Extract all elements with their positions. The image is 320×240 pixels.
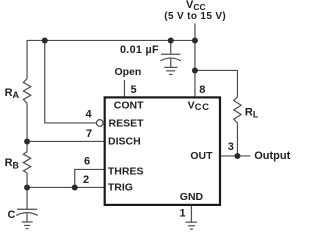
svg-text:CONT: CONT xyxy=(114,99,144,111)
ground (bypass cap) xyxy=(164,66,177,68)
capacitor C: top plate xyxy=(17,208,37,210)
wire: RB top lead xyxy=(26,141,28,151)
svg-text:0.01 µF: 0.01 µF xyxy=(120,44,159,56)
node: rail / RESET riser junction xyxy=(42,37,48,43)
wire: DISCH xyxy=(27,140,105,142)
resistor RA xyxy=(23,79,30,104)
svg-text:RESET: RESET xyxy=(109,118,145,130)
wire: RL branch from VCC stem xyxy=(195,70,238,97)
svg-text:Output: Output xyxy=(254,150,290,162)
svg-text:THRES: THRES xyxy=(108,165,144,177)
capacitor C: stem xyxy=(26,187,28,209)
wire: RESET riser xyxy=(45,40,97,123)
capacitor C2: top plate xyxy=(161,53,181,55)
svg-text:8: 8 xyxy=(199,84,205,96)
svg-text:5: 5 xyxy=(131,84,137,96)
svg-text:DISCH: DISCH xyxy=(108,135,141,147)
wire: RB bottom lead xyxy=(26,173,28,188)
svg-text:TRIG: TRIG xyxy=(108,182,133,194)
svg-text:OUT: OUT xyxy=(190,150,213,162)
node: rail / VCC stem junction xyxy=(192,37,198,43)
capacitor C2: curved plate xyxy=(160,58,181,61)
wire: pin 5 stub (open) xyxy=(123,80,125,98)
svg-text:2: 2 xyxy=(83,174,89,186)
ground (timing cap) xyxy=(22,221,33,223)
ground (pin 1) xyxy=(185,221,197,223)
node: OUT / RL junction xyxy=(234,153,240,159)
svg-text:4: 4 xyxy=(86,109,93,121)
node: RA/RB/DISCH junction xyxy=(24,138,30,144)
svg-text:GND: GND xyxy=(180,191,204,203)
IC U1 555 timer body xyxy=(105,97,220,204)
wire: THRES branch xyxy=(75,169,105,187)
svg-text:C: C xyxy=(8,209,16,221)
capacitor C: curved plate xyxy=(16,213,37,216)
svg-text:VCC: VCC xyxy=(188,99,210,113)
svg-text:7: 7 xyxy=(86,128,92,140)
wire: top VCC rail xyxy=(27,40,195,78)
node: VCC stem / RL branch junction xyxy=(192,67,198,73)
node: rail / bypass cap junction xyxy=(168,37,174,43)
svg-text:(5 V to 15 V): (5 V to 15 V) xyxy=(164,11,226,22)
capacitor C: lower stem xyxy=(26,213,28,222)
wire: RL lead to OUT node xyxy=(236,123,238,156)
svg-text:Open: Open xyxy=(115,66,142,78)
svg-text:3: 3 xyxy=(228,141,234,153)
svg-text:1: 1 xyxy=(180,208,186,220)
wire: VCC stem down to pin 8 xyxy=(194,23,196,97)
wire: RA bottom lead xyxy=(26,103,28,141)
capacitor C2 0.01uF: stem xyxy=(170,40,172,54)
wire: OUT xyxy=(220,155,250,157)
svg-text:6: 6 xyxy=(84,156,90,168)
capacitor C2: lower stem xyxy=(170,58,172,66)
resistor RB xyxy=(23,152,30,173)
node: RB/C/TRIG junction xyxy=(24,184,30,190)
node: TRIG/THRES junction xyxy=(72,184,78,190)
wire: TRIG xyxy=(27,186,105,188)
resistor RL xyxy=(234,97,241,123)
wire: pin 1 stub xyxy=(190,205,192,222)
pin 4 inversion bubble xyxy=(96,120,103,127)
